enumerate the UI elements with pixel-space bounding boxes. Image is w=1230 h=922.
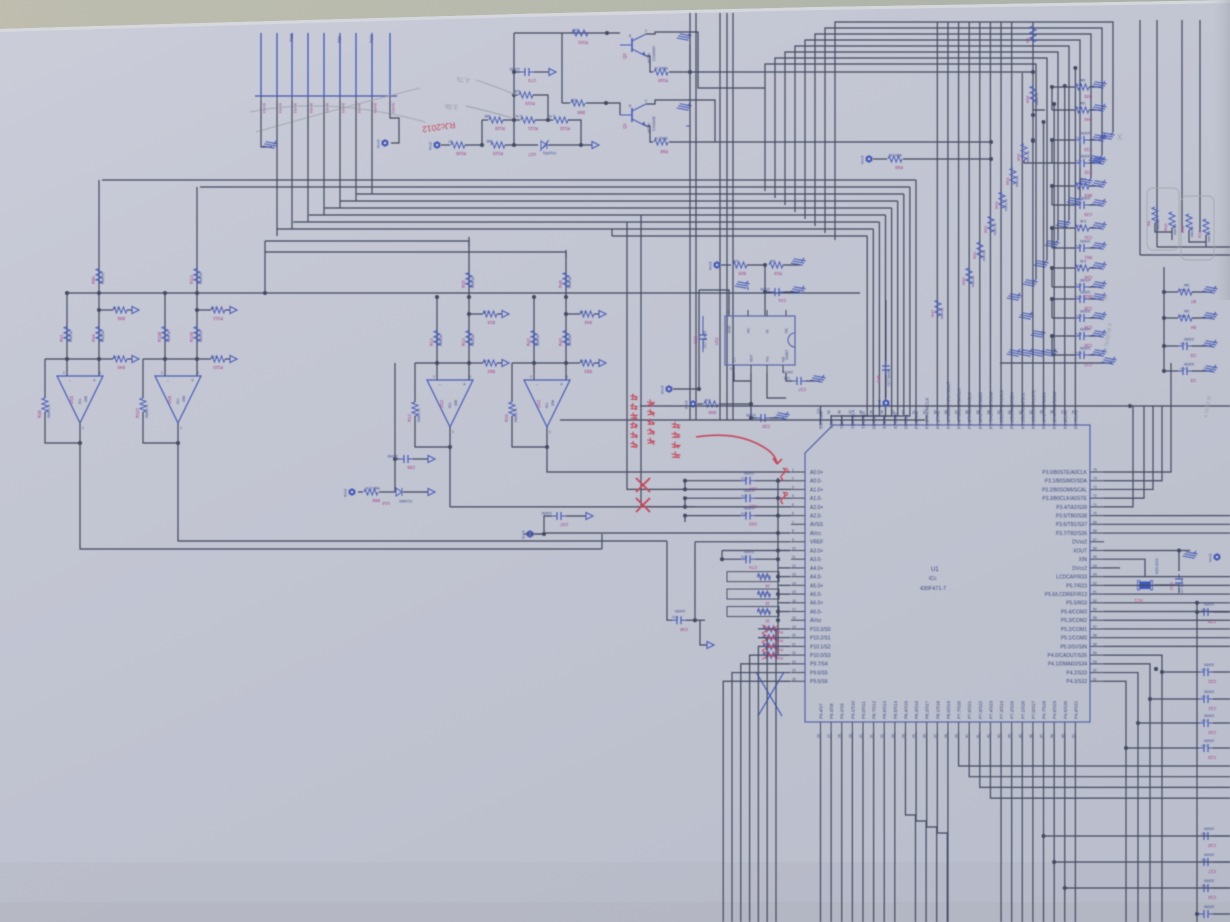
wire vertical to U14 bbox=[394, 363, 396, 492]
U1 bottom pin 26 P9.4/S7 bbox=[820, 722, 822, 732]
wire long net fy72 to R56 chain bbox=[690, 71, 1033, 73]
svg-text:103/50: 103/50 bbox=[1080, 346, 1090, 350]
svg-text:R107: R107 bbox=[135, 407, 140, 418]
handwritten red X marks bbox=[636, 478, 650, 492]
U1 left pin 12 A4.0+ bbox=[791, 567, 805, 569]
wire U1 bottom pin 50 drop bbox=[1074, 732, 1076, 922]
svg-text:1: 1 bbox=[82, 426, 84, 430]
resistor R16 (feedback, vertical) bbox=[511, 363, 513, 402]
wire U1 bottom pin 49 drop bbox=[1064, 732, 1066, 922]
svg-text:RM6 2k: RM6 2k bbox=[471, 277, 475, 288]
wire connector pin7 to bus bbox=[355, 101, 357, 201]
svg-text:C73: C73 bbox=[528, 78, 536, 83]
vertical stub U1 top pin 76 bbox=[1074, 68, 1076, 415]
svg-text:358: 358 bbox=[551, 400, 555, 406]
U1 bottom pin 28 P9.2/S9 bbox=[841, 722, 843, 732]
svg-text:U14: U14 bbox=[382, 501, 390, 506]
svg-text:CCc: CCc bbox=[1076, 244, 1082, 248]
svg-text:R50: R50 bbox=[961, 277, 966, 285]
ground (C66) bbox=[1092, 257, 1108, 273]
capacitor C65 bbox=[395, 458, 399, 460]
wire U1 pin72 route up bbox=[1104, 406, 1144, 498]
jumper J2 (RJc2012) bbox=[727, 607, 779, 617]
svg-text:3: 3 bbox=[792, 485, 794, 489]
U1 right pin 74 P3.1/B0SIMO/SDA bbox=[1090, 480, 1104, 482]
svg-text:R119: R119 bbox=[525, 101, 535, 106]
resistor B40 with net arrow bbox=[99, 358, 113, 360]
U1 left pin 14 A5.0+ bbox=[791, 584, 805, 586]
resistor B92 with net arrow bbox=[469, 362, 483, 364]
svg-text:RM64.7k: RM64.7k bbox=[655, 136, 668, 140]
wire R86 to input row bbox=[98, 293, 100, 359]
svg-text:52: 52 bbox=[1093, 669, 1097, 673]
wire U16 output route bbox=[178, 443, 667, 541]
U1 right pin 63 LCDCAP/R33 bbox=[1090, 576, 1104, 578]
svg-text:P7.3/S24: P7.3/S24 bbox=[999, 700, 1004, 719]
resistor R50 bbox=[966, 268, 972, 284]
svg-text:B92: B92 bbox=[487, 369, 495, 374]
bus drop to A1 line bbox=[611, 229, 613, 236]
svg-text:7: 7 bbox=[792, 520, 794, 524]
svg-text:103/50: 103/50 bbox=[1204, 905, 1214, 909]
resistor R41 (vertical) bbox=[64, 327, 70, 342]
U1 right pin 52 P4.2/S33 bbox=[1090, 672, 1104, 674]
wire U1 bottom pin 27 drop bbox=[830, 732, 832, 922]
wire U11 left leg bbox=[698, 290, 700, 389]
svg-text:RM6 2.7k: RM6 2.7k bbox=[47, 404, 51, 418]
svg-text:ICc: ICc bbox=[545, 402, 549, 408]
U1 right pin 51 P4.3/S32 bbox=[1090, 680, 1104, 682]
svg-text:3.3k: 3.3k bbox=[1080, 177, 1087, 181]
svg-text:103/50: 103/50 bbox=[1184, 337, 1194, 341]
svg-text:P5.5/R03: P5.5/R03 bbox=[1066, 601, 1087, 607]
microcontroller U1 (430F471-7) outline bbox=[805, 425, 1090, 722]
svg-text:14: 14 bbox=[792, 581, 796, 585]
U1 right pin 68 P3.7/TB2/S36 bbox=[1090, 532, 1104, 534]
svg-text:18k: 18k bbox=[1080, 78, 1086, 82]
wire U1 pin68 route right bbox=[1104, 532, 1230, 534]
wire U1 bottom pin 35 drop bbox=[916, 732, 926, 922]
svg-text:R10: R10 bbox=[1163, 223, 1168, 231]
resistor R111 (riser, vertical) bbox=[196, 187, 198, 293]
svg-text:RM61.8k: RM61.8k bbox=[1004, 198, 1008, 211]
wire long horizontal under U11 (2) bbox=[560, 419, 925, 421]
svg-text:CC7 104/50: CC7 104/50 bbox=[703, 331, 707, 348]
wire R18/R23 join bbox=[1189, 230, 1206, 242]
resistor B45 with net arrow bbox=[566, 313, 580, 315]
ground (crystal) bbox=[1183, 546, 1199, 562]
capacitor C41 bbox=[765, 291, 770, 293]
capacitor C73 with arrow bbox=[514, 71, 520, 73]
U1 bottom pin 29 P9.1/S10 bbox=[851, 722, 853, 732]
svg-text:103/50: 103/50 bbox=[1080, 239, 1090, 243]
U1 bottom pin 41 P7.5/S22 bbox=[979, 722, 981, 732]
U1 bottom pin 38 P8.0/S19 bbox=[947, 722, 949, 732]
U1 top pin 89 P1.2/TA1 bbox=[936, 415, 938, 425]
svg-text:R86: R86 bbox=[91, 276, 96, 284]
svg-text:RM64.7k: RM64.7k bbox=[1035, 92, 1039, 105]
svg-text:1: 1 bbox=[452, 430, 454, 434]
svg-text:54: 54 bbox=[1093, 651, 1097, 655]
svg-text:CCc: CCc bbox=[1076, 201, 1082, 205]
svg-text:R44: R44 bbox=[91, 334, 96, 342]
U1 left pin 6 A2.0- bbox=[791, 515, 805, 517]
svg-text:CCc: CCc bbox=[1076, 332, 1082, 336]
svg-text:75: 75 bbox=[1093, 468, 1097, 472]
svg-text:+: + bbox=[93, 378, 96, 384]
U1 bottom pin 36 P8.2/S17 bbox=[926, 722, 928, 732]
resistor R23 (RM610k) bbox=[1203, 219, 1209, 235]
U1 right pin 56 P5.1/COM0 bbox=[1090, 637, 1104, 639]
svg-text:18k: 18k bbox=[1080, 101, 1086, 105]
resistor R43 (vertical) bbox=[563, 331, 569, 346]
svg-text:RM6 1k: RM6 1k bbox=[167, 331, 171, 342]
capacitor C25 bbox=[751, 417, 756, 419]
svg-text:3.3k: 3.3k bbox=[1080, 259, 1087, 263]
wire A1.0+ line (pin3) bbox=[695, 488, 791, 490]
resistor R10 (RM610k) bbox=[1169, 212, 1175, 228]
wire connector pin2 to bus bbox=[276, 101, 278, 236]
ground (upper net4) bbox=[1067, 192, 1083, 208]
handwritten red note: short vertical bbox=[672, 422, 680, 428]
svg-text:104/16: 104/16 bbox=[783, 370, 793, 374]
svg-text:CCc: CCc bbox=[1076, 283, 1082, 287]
svg-text:P7.4/S23: P7.4/S23 bbox=[988, 700, 993, 719]
vertical bus right 3 bbox=[1181, 20, 1183, 232]
svg-text:3.3k: 3.3k bbox=[211, 306, 218, 310]
wire U12 output route bbox=[547, 447, 556, 472]
svg-text:103/50: 103/50 bbox=[510, 67, 520, 71]
svg-text:A6.0+: A6.0+ bbox=[810, 601, 823, 607]
resistor R51 bbox=[977, 242, 983, 258]
ground (C9) bbox=[1203, 335, 1219, 351]
vertical bus right 4 bbox=[1199, 20, 1201, 232]
svg-text:B: B bbox=[629, 34, 631, 38]
svg-text:B85: B85 bbox=[117, 316, 125, 321]
U1 top pin 90 P1.1/TA0/MCLK bbox=[926, 415, 928, 425]
svg-text:13: 13 bbox=[792, 573, 796, 577]
svg-text:BHR3: BHR3 bbox=[309, 103, 313, 113]
svg-text:47k: 47k bbox=[705, 398, 711, 402]
U1 bottom pin 37 P8.1/S18 bbox=[936, 722, 938, 732]
wire R55 bottom to rows bbox=[1024, 160, 1052, 163]
svg-text:DVss2: DVss2 bbox=[1072, 540, 1087, 546]
wire bus corner at x=67 bbox=[66, 293, 68, 359]
capacitor C23 (U1 input) bbox=[683, 496, 687, 500]
svg-text:C48: C48 bbox=[680, 627, 688, 632]
svg-text:A3.0-: A3.0- bbox=[810, 557, 822, 563]
wire Q1 collector bbox=[646, 100, 715, 142]
svg-text:CCc: CCc bbox=[741, 512, 748, 516]
svg-text:C17: C17 bbox=[1208, 869, 1216, 874]
svg-text:2: 2 bbox=[161, 371, 163, 375]
capacitor C21 bbox=[1148, 697, 1152, 701]
ground (C27) bbox=[1092, 344, 1108, 360]
bus wire net6 bbox=[309, 214, 886, 216]
svg-text:B46: B46 bbox=[708, 410, 716, 415]
resistor R20 (riser, vertical) bbox=[468, 237, 470, 297]
vertical bus into U1 top pin 89 bbox=[936, 22, 938, 415]
svg-text:B99: B99 bbox=[577, 110, 585, 115]
svg-text:CP2: CP2 bbox=[784, 376, 790, 380]
svg-text:P10.0/S3: P10.0/S3 bbox=[810, 653, 831, 659]
capacitor C16 bbox=[1199, 887, 1204, 889]
svg-text:RM6 2k: RM6 2k bbox=[101, 273, 105, 284]
U1 bottom pin 47 P4.7/S28 bbox=[1043, 722, 1045, 732]
wire input row bbox=[143, 358, 197, 360]
bus wire net1 bbox=[102, 179, 916, 181]
U1 right pin 59 P5.4/COM3 bbox=[1090, 611, 1104, 613]
U1 top pin 92 DVCC1 bbox=[904, 415, 906, 425]
bus wire net2 bbox=[200, 186, 910, 188]
svg-text:RJc2012: RJc2012 bbox=[757, 574, 770, 578]
svg-text:P10.2/S1: P10.2/S1 bbox=[810, 636, 831, 642]
svg-text:P7.6/S21: P7.6/S21 bbox=[967, 700, 972, 719]
svg-text:94: 94 bbox=[880, 410, 884, 414]
svg-text:CCc: CCc bbox=[1076, 351, 1082, 355]
U1 bottom pin 33 P8.5/S14 bbox=[894, 722, 896, 732]
svg-text:P3.1/B0SIMO/SDA: P3.1/B0SIMO/SDA bbox=[1045, 479, 1088, 485]
ground (upper net2) bbox=[1089, 150, 1105, 166]
wire U1 bottom pin 42 drop bbox=[990, 732, 1230, 798]
svg-text:U11: U11 bbox=[714, 337, 719, 345]
wire U1 bottom pin 45 drop bbox=[1021, 732, 1023, 922]
svg-text:DVSS1: DVSS1 bbox=[872, 414, 877, 429]
wire U1 pin71 route up bbox=[1104, 406, 1133, 507]
wire connector pin4 to bus bbox=[307, 101, 309, 222]
svg-text:P9.2/S9: P9.2/S9 bbox=[840, 703, 845, 719]
op-amp U16 (triangle) bbox=[155, 376, 201, 423]
resistor R18 (RM610k) bbox=[1186, 214, 1192, 230]
U1 right pin 70 P3.5/TB0/S38 bbox=[1090, 515, 1104, 517]
wire U1 bottom pin 46 drop bbox=[1032, 732, 1034, 922]
bus wire net9 bbox=[612, 235, 867, 237]
U1 left pin 21 P10.1/S2 bbox=[791, 645, 805, 647]
svg-text:P4.6/S29: P4.6/S29 bbox=[1052, 700, 1057, 719]
capacitor B62 (right column) bbox=[1052, 286, 1075, 288]
svg-text:3.3k: 3.3k bbox=[483, 310, 490, 314]
svg-text:B15: B15 bbox=[487, 320, 495, 325]
resistor R54 bbox=[1010, 168, 1016, 184]
svg-text:2: 2 bbox=[792, 477, 794, 481]
U1 left pin 2 A0.0- bbox=[791, 480, 805, 482]
wire column B feeder bbox=[1163, 267, 1165, 371]
svg-text:R16: R16 bbox=[504, 414, 509, 422]
U1 right pin 66 XOUT bbox=[1090, 549, 1104, 551]
wire U1 bottom pin 37 drop bbox=[937, 732, 947, 922]
resistor R48 (riser, vertical) bbox=[565, 250, 567, 297]
ground (B7) bbox=[1203, 281, 1219, 297]
svg-text:2.7k: 2.7k bbox=[548, 114, 555, 118]
U1 right pin 62 P5.7/R23 bbox=[1090, 584, 1104, 586]
svg-text:8.2k: 8.2k bbox=[211, 355, 218, 359]
svg-text:C47: C47 bbox=[560, 522, 568, 527]
svg-text:C16: C16 bbox=[1208, 895, 1216, 900]
svg-text:103/50: 103/50 bbox=[1080, 154, 1090, 158]
svg-text:21: 21 bbox=[792, 642, 796, 646]
U1 left pin 3 A1.0+ bbox=[791, 488, 805, 490]
svg-text:103/50: 103/50 bbox=[1204, 853, 1214, 857]
svg-text:4: 4 bbox=[792, 494, 794, 498]
U1 left pin 22 P10.0/S3 bbox=[791, 654, 805, 656]
svg-text:Vcc3: Vcc3 bbox=[709, 262, 713, 270]
svg-text:10: 10 bbox=[792, 546, 796, 550]
svg-text:2: 2 bbox=[433, 375, 435, 379]
U1 top pin 97 TDI/TCLK bbox=[851, 415, 853, 425]
svg-text:R43: R43 bbox=[558, 338, 563, 346]
ground (lower band 5) bbox=[1019, 344, 1035, 360]
svg-text:68: 68 bbox=[1093, 529, 1097, 533]
resistor R119 bbox=[514, 94, 518, 96]
wire vertical joiner x=265 bbox=[264, 241, 266, 293]
U1 left pin 13 A4.0- bbox=[791, 576, 805, 578]
resistor R55 bbox=[1021, 144, 1027, 160]
ground (C8) bbox=[1203, 360, 1219, 376]
svg-text:60: 60 bbox=[1093, 599, 1097, 603]
svg-text:R13: R13 bbox=[429, 338, 434, 346]
U1 top pin 77 P2.6/CA0 bbox=[1064, 415, 1066, 425]
svg-text:P8.1/S18: P8.1/S18 bbox=[935, 700, 940, 719]
U1 top pin 95 DVSS1 bbox=[873, 415, 875, 425]
U1 right pin 53 P4.1/DMAE0/S34 bbox=[1090, 663, 1104, 665]
resistor R105 bbox=[441, 144, 450, 146]
power symbol Vcc3 (crystal) bbox=[1214, 554, 1220, 561]
wire U12 output bbox=[546, 427, 548, 447]
svg-text:CCc: CCc bbox=[1201, 668, 1207, 672]
svg-text:A0.0+: A0.0+ bbox=[810, 470, 823, 476]
wire pin25 drop bbox=[723, 681, 790, 922]
svg-text:104/50: 104/50 bbox=[675, 609, 685, 613]
capacitor C26 (right column) bbox=[1052, 335, 1075, 337]
svg-text:Vcc3: Vcc3 bbox=[878, 400, 882, 408]
U1 top pin 87 P1.4/TBCLK/SMCLK bbox=[958, 415, 960, 425]
svg-text:S1857: S1857 bbox=[785, 350, 789, 360]
wire A0.0+ line (pin1) bbox=[556, 471, 791, 473]
svg-text:P4.3/S32: P4.3/S32 bbox=[1066, 679, 1087, 685]
resistor C66 (right column) bbox=[1052, 267, 1075, 269]
svg-text:4.7k: 4.7k bbox=[456, 75, 470, 83]
wire pin23 drop bbox=[741, 664, 791, 922]
svg-text:P7.2/S25: P7.2/S25 bbox=[1010, 700, 1015, 719]
U1 left pin 17 A6.0- bbox=[791, 611, 805, 613]
svg-text:C37: C37 bbox=[798, 387, 806, 392]
U1 bottom pin 45 P7.1/S26 bbox=[1021, 722, 1023, 732]
wire cap join vertical bbox=[684, 481, 686, 490]
ground (row 15) bbox=[1102, 352, 1118, 368]
resistor R49 bbox=[873, 158, 887, 160]
svg-text:RM6: RM6 bbox=[1076, 83, 1083, 87]
svg-text:RM6: RM6 bbox=[1180, 314, 1187, 318]
resistor C31 (right column) bbox=[1052, 227, 1075, 229]
svg-text:1: 1 bbox=[180, 426, 182, 430]
svg-text:TCK: TCK bbox=[829, 420, 834, 429]
svg-text:67: 67 bbox=[1093, 538, 1097, 542]
ground (B63) bbox=[1092, 175, 1108, 191]
svg-text:U17: U17 bbox=[528, 152, 536, 157]
wire P4.3 route down bbox=[1104, 681, 1126, 922]
svg-text:RM6 1k: RM6 1k bbox=[439, 335, 443, 346]
svg-text:10k: 10k bbox=[514, 89, 520, 93]
wire U1 bottom pin 47 drop bbox=[1043, 732, 1045, 922]
svg-text:3.3k: 3.3k bbox=[1080, 219, 1087, 223]
U1 right pin 64 DVcc2 bbox=[1090, 567, 1104, 569]
svg-text:BHR3: BHR3 bbox=[262, 103, 266, 113]
U1 top pin 84 P1.7/A1RXD/SOMI bbox=[989, 415, 991, 425]
svg-text:3.3k: 3.3k bbox=[580, 310, 587, 314]
wire U11 OUT down bbox=[750, 373, 752, 418]
bus staircase drop 9 bbox=[831, 236, 867, 425]
svg-text:103/50: 103/50 bbox=[1204, 602, 1214, 606]
svg-text:P3.2/B0SOMI/SCAL: P3.2/B0SOMI/SCAL bbox=[1042, 487, 1087, 493]
capacitor C47 group bbox=[542, 532, 546, 536]
wire Q2 emitter to R100 bbox=[646, 56, 653, 72]
resistor R123 bbox=[491, 142, 505, 148]
ground (R24) bbox=[791, 253, 807, 269]
svg-text:R108: R108 bbox=[157, 331, 162, 342]
svg-text:RM2.2k: RM2.2k bbox=[568, 335, 572, 346]
U1 bottom pin 35 P8.3/S16 bbox=[915, 722, 917, 732]
svg-text:R52: R52 bbox=[983, 225, 988, 233]
svg-text:24: 24 bbox=[792, 669, 796, 673]
svg-text:70: 70 bbox=[1093, 512, 1097, 516]
svg-text:P9.5/S6: P9.5/S6 bbox=[810, 679, 828, 685]
svg-text:P3.3/B0CLK/A0STE: P3.3/B0CLK/A0STE bbox=[1042, 496, 1087, 502]
U1 top pin 96 TDO/TDI bbox=[862, 415, 864, 425]
capacitor C9 bbox=[1164, 345, 1178, 347]
vertical bus into U1 top pin 84 bbox=[989, 22, 991, 415]
svg-text:R14: R14 bbox=[461, 338, 466, 346]
svg-text:ICc(431): ICc(431) bbox=[543, 151, 556, 155]
svg-text:P5.0/SVSIN: P5.0/SVSIN bbox=[1060, 644, 1087, 650]
resistor B63 (right column) bbox=[1052, 185, 1075, 187]
U1 left pin 19 P10.3/S0 bbox=[791, 628, 805, 630]
U1 bottom pin 39 P7.7/S20 bbox=[958, 722, 960, 732]
svg-text:RM610k: RM610k bbox=[1190, 225, 1194, 237]
svg-text:P7.5/S22: P7.5/S22 bbox=[978, 700, 983, 719]
svg-text:P8.4/S15: P8.4/S15 bbox=[903, 700, 908, 719]
svg-text:P4.7/S28: P4.7/S28 bbox=[1042, 700, 1047, 719]
U1 right pin 72 P3.3/B0CLK/A0STE bbox=[1090, 497, 1104, 499]
ground (upper net7) bbox=[1034, 255, 1050, 271]
capacitor C24 (U1 input) bbox=[683, 479, 687, 483]
U1 top pin 81 P2.2/B1SOMI/SCL bbox=[1021, 415, 1023, 425]
wire crystal to C53 bbox=[1154, 585, 1179, 593]
U1 bottom pin 27 P9.3/S8 bbox=[830, 722, 832, 732]
U1 top pin 98 TMS bbox=[841, 415, 843, 425]
svg-text:103/50: 103/50 bbox=[744, 506, 754, 510]
wire U15 input stubs bbox=[66, 359, 68, 376]
svg-text:103/50: 103/50 bbox=[1080, 196, 1090, 200]
bus staircase drop 8 bbox=[842, 229, 874, 425]
vertical bus right 1 bbox=[1139, 20, 1141, 255]
wire right bus row 247 bbox=[1157, 246, 1230, 248]
resistor R45 (right column) bbox=[1052, 86, 1075, 88]
svg-text:R20: R20 bbox=[461, 280, 466, 288]
resistor B7 bbox=[1164, 291, 1178, 293]
wire pin24 drop bbox=[732, 673, 791, 922]
svg-text:17: 17 bbox=[792, 608, 796, 612]
wire input row bbox=[512, 362, 566, 364]
svg-text:B88: B88 bbox=[372, 498, 380, 503]
capacitor C32 (right column) bbox=[1052, 162, 1075, 164]
wire U1 bottom pin 40 drop bbox=[969, 732, 1230, 777]
svg-text:P4.2/S33: P4.2/S33 bbox=[1066, 670, 1087, 676]
capacitor C74 bbox=[720, 557, 724, 561]
svg-text:DVCC1: DVCC1 bbox=[903, 414, 908, 429]
U1 top pin 88 P1.3/TBOUTH/SVSOUT bbox=[947, 415, 949, 425]
wire vertical Q-base link bbox=[561, 33, 563, 103]
svg-text:R45: R45 bbox=[1084, 94, 1092, 99]
